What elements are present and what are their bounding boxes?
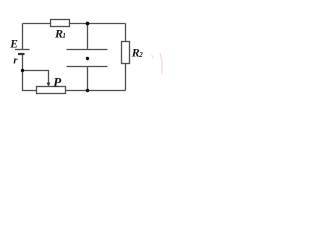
svg-text:E: E: [9, 39, 18, 51]
svg-text:P: P: [53, 75, 62, 90]
svg-text:2: 2: [138, 51, 143, 59]
svg-text:1: 1: [62, 32, 66, 40]
